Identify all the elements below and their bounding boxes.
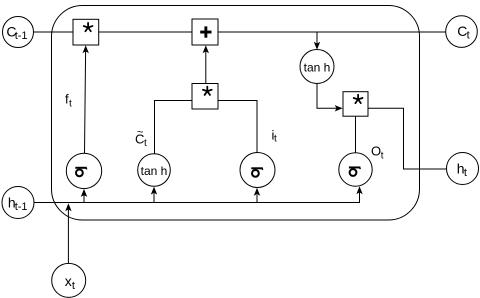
svg-text:O: O <box>371 144 381 159</box>
svg-text:t: t <box>274 134 277 145</box>
svg-text:t: t <box>144 138 147 149</box>
svg-text:t-1: t-1 <box>15 30 28 42</box>
gate tanh bottom <box>138 154 171 187</box>
svg-text:t-1: t-1 <box>15 201 28 213</box>
gate tanh top <box>300 50 334 84</box>
wire f_t: sigma1 to *1 with arrow <box>83 45 89 153</box>
wire bus to sigma2 arrow <box>254 188 260 203</box>
cell body rounded rectangle <box>52 6 420 221</box>
label C~_t <box>135 126 147 149</box>
wire *1 to + <box>99 31 192 33</box>
node C(t-1) <box>3 17 34 48</box>
wire h(t-1) bus with arrow into sigma3 <box>34 186 363 202</box>
label i_t <box>272 127 278 144</box>
multiply box *2 <box>192 84 218 110</box>
multiply box *3 <box>343 92 368 117</box>
wire *2 right elbow to sigma2 <box>218 101 257 153</box>
gate sigma2 <box>240 153 275 188</box>
node C(t) <box>446 16 478 48</box>
label O_t <box>371 144 384 162</box>
gate sigma3 <box>339 153 372 186</box>
wire + to C(t) <box>218 31 446 33</box>
wire bus to sigma1 arrow <box>81 189 87 203</box>
wire *2 to + with arrow <box>203 45 209 83</box>
svg-text:t: t <box>467 30 470 42</box>
svg-text:t: t <box>69 99 72 110</box>
svg-text:~: ~ <box>137 126 143 138</box>
wire x_t up to bus with arrow <box>65 203 71 263</box>
multiply box *1 <box>73 19 99 45</box>
wire bus to tanh bottom arrow <box>151 187 157 203</box>
wire *3 to h(t) elbow <box>368 108 447 169</box>
svg-text:t: t <box>381 150 384 161</box>
node h(t-1) <box>2 187 34 219</box>
node h(t) <box>447 153 479 185</box>
add box + <box>192 19 218 45</box>
label f_t <box>65 92 72 110</box>
svg-text:x: x <box>65 273 72 289</box>
svg-text:tan h: tan h <box>141 164 168 178</box>
svg-text:t: t <box>464 167 467 179</box>
wire C(t-1) to *1 <box>34 31 74 33</box>
node x_t <box>52 263 86 297</box>
wire C line to tanh top with arrow <box>314 32 320 50</box>
gate sigma1 <box>66 153 101 188</box>
svg-text:t: t <box>72 280 75 292</box>
wire *2 left elbow to tanh bottom circle <box>155 101 193 154</box>
svg-text:tan h: tan h <box>304 60 331 74</box>
wire sigma3 to *3 bottom <box>355 116 357 153</box>
wire tanh top to *3 with arrow <box>317 84 343 112</box>
